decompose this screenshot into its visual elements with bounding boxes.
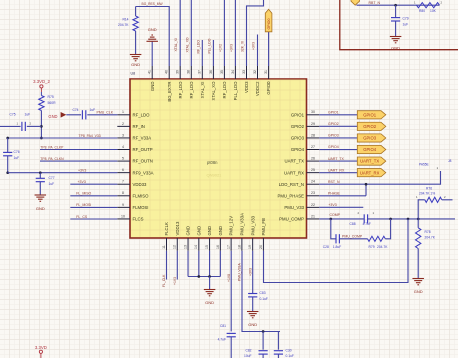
svg-text:41: 41 [148, 70, 152, 74]
svg-text:14: 14 [194, 245, 198, 249]
svg-text:C79: C79 [403, 16, 409, 20]
sheet border [340, 0, 458, 50]
port GPIO4 [357, 145, 386, 153]
svg-text:PMU_COMP: PMU_COMP [342, 235, 363, 239]
wire [252, 251, 254, 293]
svg-text:+1V8: +1V8 [227, 274, 231, 282]
svg-text:GPIO2: GPIO2 [328, 122, 339, 126]
wire [187, 251, 189, 277]
svg-text:RF_LDO: RF_LDO [178, 81, 183, 99]
svg-text:1uF: 1uF [14, 156, 20, 160]
pin 31 GPIO0 [268, 66, 270, 79]
op IC U8 body [130, 79, 307, 238]
ground [204, 289, 216, 291]
svg-text:6: 6 [122, 168, 124, 172]
svg-text:15: 15 [205, 245, 209, 249]
junction [40, 137, 43, 140]
wire [166, 251, 168, 280]
ground [130, 54, 142, 56]
pin 5 RF_OUTN [117, 160, 130, 162]
wire [212, 40, 214, 66]
pin 15 GND [209, 238, 211, 251]
svg-text:GND: GND [131, 62, 140, 67]
svg-text:PLL_LDO: PLL_LDO [233, 81, 238, 101]
svg-text:GND: GND [205, 300, 214, 305]
svg-text:C88: C88 [350, 222, 356, 226]
svg-text:XTAL_XI: XTAL_XI [200, 82, 205, 99]
svg-text:PMU_PHASE: PMU_PHASE [277, 193, 304, 198]
capacitor C30 [277, 332, 279, 350]
pin 8 FLMISO [117, 195, 130, 197]
pin 4 RF_OUTP [117, 149, 130, 151]
wire [319, 160, 357, 162]
pin 24 LDO_RST_N [307, 183, 320, 185]
wire [70, 206, 117, 208]
svg-text:GPIO3: GPIO3 [363, 136, 376, 141]
svg-text:GND: GND [207, 226, 212, 236]
svg-text:GND: GND [48, 114, 57, 119]
svg-text:39: 39 [176, 70, 180, 74]
svg-text:GPIO0: GPIO0 [266, 81, 271, 95]
svg-text:RF_OUTP: RF_OUTP [133, 147, 153, 152]
svg-text:GND: GND [150, 82, 155, 92]
wire [176, 251, 178, 280]
svg-text:FLMISO: FLMISO [133, 193, 150, 198]
ground [146, 40, 158, 42]
wire [201, 40, 203, 66]
port GPIO2 [357, 122, 386, 130]
pin 16 GND [219, 238, 221, 251]
pin 41 GND [151, 66, 153, 79]
svg-text:GPIO2: GPIO2 [363, 124, 376, 129]
pin 13 GND [187, 238, 189, 251]
svg-text:40: 40 [165, 70, 169, 74]
svg-text:UART_RX: UART_RX [284, 170, 304, 175]
wire [209, 277, 211, 290]
capacitor C74 [81, 110, 83, 119]
pin 22 PMU_V33 [307, 206, 320, 208]
svg-text:32: 32 [253, 70, 257, 74]
junction [197, 275, 200, 278]
svg-text:1.8uF: 1.8uF [333, 245, 341, 249]
svg-text:FL_MOSI: FL_MOSI [76, 203, 91, 207]
pin 26 UART_TX [307, 160, 320, 162]
svg-text:XTAL_XO: XTAL_XO [185, 37, 189, 52]
svg-text:C75: C75 [10, 112, 16, 116]
svg-text:0.1uF: 0.1uF [260, 297, 268, 301]
svg-text:FL_CLK: FL_CLK [162, 274, 166, 287]
svg-text:13: 13 [183, 245, 187, 249]
svg-text:U8: U8 [131, 72, 136, 76]
svg-text:+3V3: +3V3 [229, 44, 233, 52]
svg-text:R75: R75 [48, 95, 54, 99]
svg-text:COMP: COMP [330, 213, 341, 217]
svg-text:TP8_PA_CLKN: TP8_PA_CLKN [40, 157, 64, 161]
junction [40, 125, 43, 128]
svg-text:GPIO4: GPIO4 [363, 147, 376, 152]
resistor R14 [135, 7, 137, 17]
svg-text:1uF: 1uF [403, 22, 409, 26]
svg-text:UART_TX: UART_TX [285, 159, 305, 164]
wire [385, 219, 390, 239]
svg-text:29: 29 [311, 122, 315, 126]
svg-text:4.7uF: 4.7uF [218, 338, 226, 342]
pin 36 XTAL_XO [212, 66, 214, 79]
svg-text:FL_CS: FL_CS [76, 215, 88, 219]
svg-text:+1V3: +1V3 [173, 277, 177, 285]
svg-text:10: 10 [121, 214, 125, 218]
port RBT [351, 0, 360, 5]
svg-text:C74: C74 [72, 108, 78, 112]
pin 10 FLCS [117, 218, 130, 220]
svg-text:C82: C82 [245, 349, 251, 353]
svg-text:9: 9 [122, 203, 124, 207]
port GPIO3 [357, 134, 386, 142]
svg-text:204.7K: 204.7K [377, 245, 388, 249]
pin 23 PMU_PHASE [307, 195, 320, 197]
svg-text:1uF: 1uF [25, 112, 31, 116]
capacitor C82 [262, 332, 264, 350]
svg-text:20: 20 [259, 245, 263, 249]
svg-text:GPIO0: GPIO0 [267, 19, 271, 30]
pin 18 PMU_V33A [241, 238, 243, 251]
wire [198, 251, 200, 277]
svg-text:R79: R79 [369, 245, 375, 249]
svg-text:J8: J8 [448, 159, 452, 163]
wire [219, 251, 221, 277]
wire [230, 251, 232, 332]
wire [319, 114, 357, 116]
svg-text:FL_MISO: FL_MISO [76, 192, 91, 196]
wire [27, 125, 42, 127]
svg-text:PMU_COMP: PMU_COMP [279, 217, 304, 222]
svg-text:R76: R76 [426, 186, 432, 190]
svg-text:GPIO2: GPIO2 [291, 124, 305, 129]
wire [247, 0, 264, 66]
junction [6, 137, 9, 140]
svg-text:GND: GND [218, 226, 223, 236]
svg-text:+3V3: +3V3 [78, 180, 86, 184]
svg-text:32K_XI: 32K_XI [241, 41, 245, 52]
capacitor C88 [363, 214, 365, 223]
svg-text:VDDC2: VDDC2 [255, 81, 260, 96]
svg-text:PA55E: PA55E [419, 163, 429, 167]
resistor R76 [425, 197, 442, 202]
capacitor C79 [395, 5, 397, 17]
svg-text:GPIO3: GPIO3 [291, 136, 305, 141]
pin 7 VDD33 [117, 183, 130, 185]
wire [188, 276, 220, 278]
svg-text:19: 19 [248, 245, 252, 249]
wire [70, 183, 117, 185]
svg-text:RF_V33A: RF_V33A [133, 136, 152, 141]
svg-text:FLMOSI: FLMOSI [133, 205, 149, 210]
junction [417, 218, 420, 221]
svg-text:+1V2: +1V2 [218, 44, 222, 52]
svg-text:RF_LDO: RF_LDO [222, 81, 227, 99]
svg-text:C81: C81 [220, 324, 226, 328]
wire [70, 218, 117, 220]
pin 9 FLMOSI [117, 206, 130, 208]
svg-text:RF_LDO: RF_LDO [189, 81, 194, 99]
svg-text:10uF: 10uF [244, 354, 252, 358]
wire [0, 125, 21, 127]
wire [319, 184, 366, 196]
junction [329, 218, 332, 221]
wire [87, 114, 117, 116]
svg-text:+3V3: +3V3 [248, 268, 252, 276]
svg-text:RF_OUTN: RF_OUTN [133, 159, 153, 164]
wire [257, 35, 259, 67]
wire [151, 42, 153, 67]
svg-text:7: 7 [122, 180, 124, 184]
wire [136, 7, 170, 67]
svg-text:37: 37 [198, 70, 202, 74]
svg-text:VDD13: VDD13 [175, 221, 180, 235]
svg-text:204.7K: 204.7K [425, 235, 436, 239]
pin 30 GPIO1 [307, 114, 320, 116]
capacitor C76 [7, 138, 9, 152]
svg-text:27: 27 [311, 145, 315, 149]
wire [252, 297, 254, 311]
pin 27 GPIO4 [307, 149, 320, 151]
svg-text:GND: GND [248, 322, 257, 327]
wire [8, 137, 118, 139]
wire [366, 171, 441, 184]
pin 33 VDD3 [246, 66, 248, 79]
svg-text:GND: GND [196, 226, 201, 236]
junction [389, 218, 392, 221]
svg-text:+3V3: +3V3 [328, 203, 336, 207]
pin 17 PMU_12V [230, 238, 232, 251]
wire [319, 149, 357, 151]
svg-text:UART_RX: UART_RX [328, 168, 345, 172]
svg-text:pt08n: pt08n [207, 160, 218, 165]
pin 29 GPIO2 [307, 125, 320, 127]
svg-text:TP8_PA_CLKP: TP8_PA_CLKP [40, 145, 64, 149]
pin 38 RF_LDO [190, 66, 192, 79]
wire [223, 0, 225, 66]
svg-text:35: 35 [220, 70, 224, 74]
pin 12 VDD13 [176, 238, 178, 251]
wire [417, 249, 419, 279]
resistor R78 [417, 219, 419, 228]
port GPIO1 [357, 111, 386, 119]
svg-text:C30: C30 [286, 349, 292, 353]
svg-text:UART_TX: UART_TX [328, 157, 345, 161]
svg-text:33: 33 [242, 70, 246, 74]
svg-text:R78: R78 [425, 230, 431, 234]
pin 32 VDDC2 [257, 66, 259, 79]
wire [66, 114, 81, 116]
svg-text:4.7uF: 4.7uF [363, 222, 371, 226]
svg-text:+3V3: +3V3 [252, 42, 256, 50]
resistor R75 [40, 92, 42, 96]
svg-text:GND: GND [148, 27, 157, 32]
wire [268, 32, 270, 66]
svg-text:4: 4 [122, 145, 124, 149]
port UART_RX [357, 169, 386, 177]
ground [247, 311, 259, 313]
junction [39, 171, 42, 174]
pin 19 PMU_V33 [252, 238, 254, 251]
svg-text:PMU_V33A: PMU_V33A [238, 263, 242, 281]
svg-text:24: 24 [311, 180, 315, 184]
svg-text:204.7K 1%: 204.7K 1% [419, 191, 435, 195]
wire [209, 251, 211, 277]
pin 3 RF_V33A [117, 137, 130, 139]
svg-text:BG_RES_MW: BG_RES_MW [142, 2, 164, 6]
svg-text:GPIO4: GPIO4 [328, 145, 339, 149]
svg-text:BG_EXTR: BG_EXTR [167, 82, 172, 102]
pin 28 GPIO3 [307, 137, 320, 139]
svg-text:GPIO4: GPIO4 [291, 147, 305, 152]
wire [234, 0, 236, 66]
svg-text:11: 11 [162, 245, 166, 249]
wire [357, 4, 440, 6]
svg-text:28: 28 [311, 133, 315, 137]
svg-text:FLCS: FLCS [133, 217, 144, 222]
svg-text:LDO_RST_N: LDO_RST_N [279, 182, 304, 187]
svg-text:5: 5 [122, 156, 124, 160]
svg-text:1uF: 1uF [49, 182, 55, 186]
svg-text:RF9_V33A: RF9_V33A [133, 170, 154, 175]
svg-text:PLL_LDO: PLL_LDO [207, 38, 211, 53]
svg-text:560R: 560R [48, 101, 57, 105]
wire [319, 218, 364, 220]
svg-text:1: 1 [122, 110, 124, 114]
capacitor C75 [21, 122, 23, 131]
svg-text:10K: 10K [430, 9, 437, 13]
svg-text:GND: GND [186, 226, 191, 236]
wire [340, 238, 368, 240]
svg-text:16: 16 [216, 245, 220, 249]
junction [208, 275, 211, 278]
svg-text:30: 30 [311, 110, 315, 114]
svg-text:3.3VD: 3.3VD [35, 345, 47, 350]
wire [40, 160, 117, 162]
svg-text:RF_IN: RF_IN [133, 124, 145, 129]
svg-text:3: 3 [122, 133, 124, 137]
svg-text:PHASE: PHASE [328, 191, 341, 195]
svg-text:R14: R14 [122, 18, 128, 22]
pin 6 RF9_V33A [117, 172, 130, 174]
svg-text:UART_RX: UART_RX [360, 170, 380, 175]
pin 1 RF_LDO [117, 114, 130, 116]
wire [331, 219, 336, 239]
svg-text:RST_N: RST_N [328, 180, 340, 184]
pin 11 FLCLK [166, 238, 168, 251]
svg-text:21: 21 [311, 214, 315, 218]
wire [442, 199, 453, 201]
svg-text:PMU_V33A: PMU_V33A [239, 213, 244, 236]
svg-text:GND: GND [414, 289, 423, 294]
svg-text:PMU_FB: PMU_FB [261, 218, 266, 236]
svg-text:R80: R80 [419, 9, 425, 13]
pin 20 PMU_FB [262, 238, 264, 251]
ground [412, 278, 424, 280]
junction [365, 183, 368, 186]
wire [230, 337, 232, 358]
svg-text:0.1uF: 0.1uF [286, 354, 294, 358]
wire [319, 137, 357, 139]
svg-text:34: 34 [231, 70, 235, 74]
svg-text:+3V3: +3V3 [78, 168, 86, 172]
svg-text:C28: C28 [323, 245, 329, 249]
wire [368, 218, 455, 220]
wire [190, 0, 192, 66]
svg-text:PMU_V33: PMU_V33 [284, 205, 304, 210]
port GPIO0 [265, 9, 272, 32]
capacitor C28 [335, 234, 337, 243]
svg-text:FLCLK: FLCLK [164, 222, 169, 236]
svg-text:36: 36 [209, 70, 213, 74]
svg-text:1uF: 1uF [90, 108, 96, 112]
svg-text:XTAL_XO: XTAL_XO [211, 81, 216, 101]
pin 35 RF_LDO [223, 66, 225, 79]
svg-text:VDD3: VDD3 [244, 81, 249, 93]
wire R75 bottom [40, 111, 42, 139]
wire [418, 200, 425, 219]
wire [319, 172, 357, 174]
svg-text:GPIO1: GPIO1 [328, 111, 339, 115]
svg-text:GPIO1: GPIO1 [291, 112, 305, 117]
svg-text:2: 2 [122, 122, 124, 126]
svg-text:C83: C83 [260, 291, 266, 295]
wire [8, 172, 118, 174]
svg-text:PMU_CLK: PMU_CLK [97, 110, 114, 114]
wire [319, 206, 363, 208]
port UART_TX [357, 157, 386, 165]
wire [242, 251, 280, 332]
svg-text:C77: C77 [49, 176, 55, 180]
svg-text:31: 31 [264, 70, 268, 74]
svg-text:RF_LDO: RF_LDO [196, 40, 200, 54]
junction [407, 218, 410, 221]
svg-text:RBT_N: RBT_N [369, 1, 381, 5]
svg-text:VDD33: VDD33 [133, 182, 147, 187]
svg-text:23: 23 [311, 191, 315, 195]
svg-text:GPIO1: GPIO1 [363, 112, 376, 117]
junction [394, 4, 397, 7]
pin 34 PLL_LDO [234, 66, 236, 79]
svg-text:18: 18 [237, 245, 241, 249]
svg-text:TP8_PA4_V33: TP8_PA4_V33 [79, 134, 101, 138]
pin 40 BG_EXTR [168, 66, 170, 79]
pin 39 RF_LDO [179, 66, 181, 79]
capacitor C81 [227, 332, 236, 334]
svg-text:12: 12 [173, 245, 177, 249]
svg-text:25: 25 [311, 168, 315, 172]
ground [390, 36, 402, 38]
svg-text:C76: C76 [14, 150, 20, 154]
svg-text:8: 8 [122, 191, 124, 195]
svg-text:3.3VD_2: 3.3VD_2 [33, 79, 50, 84]
wire [40, 149, 117, 151]
wire [319, 195, 366, 197]
svg-text:38: 38 [187, 70, 191, 74]
svg-text:22: 22 [311, 203, 315, 207]
pin 2 RF_IN [117, 125, 130, 127]
svg-text:PMU_V33: PMU_V33 [250, 215, 255, 235]
pin 21 PMU_COMP [307, 218, 320, 220]
svg-text:26: 26 [311, 156, 315, 160]
pin 37 XTAL_XI [201, 66, 203, 79]
wire [264, 219, 409, 283]
svg-text:17: 17 [227, 245, 231, 249]
pin 14 GND [198, 238, 200, 251]
capacitor C77 [39, 173, 41, 178]
